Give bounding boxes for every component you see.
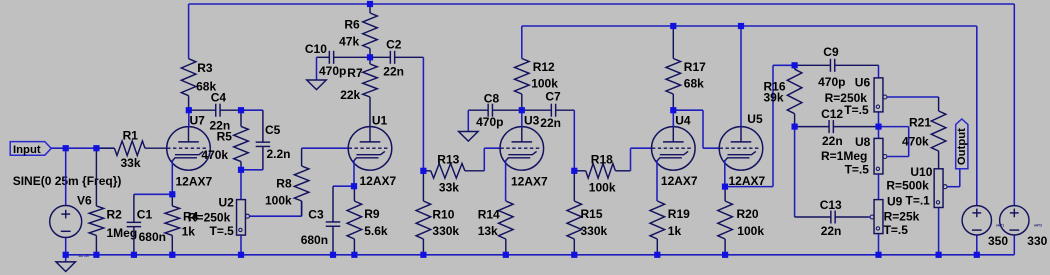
junction R10/R13 node — [420, 168, 426, 174]
label U6 value R=250k — [825, 91, 868, 105]
resistor R4 1k — [165, 194, 180, 255]
label U5 — [747, 112, 763, 126]
svg-text:R1: R1 — [123, 129, 139, 143]
svg-text:470p: 470p — [818, 75, 845, 89]
label C7 — [545, 89, 561, 103]
svg-text:U6: U6 — [855, 75, 871, 89]
junction rail U10 — [936, 252, 942, 258]
label C5 value 2.2n — [267, 147, 291, 161]
label R2 — [107, 208, 123, 222]
label R5 — [217, 130, 233, 144]
svg-text:350: 350 — [988, 234, 1008, 248]
resistor R9 5.6k — [347, 186, 362, 255]
label R4 value 1k — [182, 224, 196, 238]
triode U7 12AX7 — [167, 127, 211, 171]
label R7 value 22k — [340, 88, 360, 102]
svg-text:22n: 22n — [821, 224, 842, 238]
svg-text:100k: 100k — [531, 76, 558, 90]
label R14 — [478, 207, 500, 221]
potentiometer U2 250k — [237, 170, 302, 255]
svg-text:R10: R10 — [432, 207, 454, 221]
ground below C8 — [459, 110, 479, 141]
label C2 value 22n — [383, 65, 404, 79]
wire R18 up to U4 grid — [631, 148, 652, 171]
svg-text:470k: 470k — [201, 148, 228, 162]
svg-text:R9: R9 — [364, 207, 380, 221]
wire U10 wiper up to Output — [959, 169, 961, 187]
wire U4 cathode down — [656, 160, 658, 201]
svg-text:C10: C10 — [305, 42, 327, 56]
svg-text:C8: C8 — [484, 91, 500, 105]
resistor R8 100k — [294, 148, 309, 216]
wire C9 right down to U6 — [878, 65, 880, 78]
label 350 — [988, 234, 1008, 248]
svg-text:R2: R2 — [107, 208, 123, 222]
label R7 — [347, 66, 363, 80]
label U8 value R=1Meg — [821, 149, 867, 163]
label R17 — [684, 60, 706, 74]
label R9 — [364, 207, 380, 221]
svg-text:330k: 330k — [581, 224, 608, 238]
label C4 — [211, 90, 227, 104]
svg-text:470p: 470p — [319, 64, 346, 78]
input flag Input — [10, 142, 51, 156]
svg-text:330k: 330k — [432, 224, 459, 238]
svg-text:Output: Output — [956, 128, 968, 165]
svg-text:12AX7: 12AX7 — [360, 174, 397, 188]
junction rail R14 — [503, 252, 509, 258]
label R13 value 33k — [439, 180, 459, 194]
wire C5 top from node — [241, 109, 263, 111]
label R10 value 330k — [432, 224, 459, 238]
svg-text:33k: 33k — [439, 180, 459, 194]
capacitor C8 470p — [468, 104, 522, 117]
label R16 — [764, 80, 786, 94]
triode U4 12AX7 — [652, 127, 696, 171]
svg-text:1k: 1k — [668, 224, 682, 238]
potentiometer U8 1Meg — [874, 127, 909, 174]
svg-text:R12: R12 — [533, 60, 555, 74]
resistor R2 1Meg — [89, 148, 104, 255]
svg-text:R8: R8 — [276, 177, 292, 191]
junction R15/R18 node — [571, 168, 577, 174]
svg-text:470k: 470k — [902, 135, 929, 149]
wire U7 cathode down — [171, 160, 173, 194]
label R12 value 100k — [531, 76, 558, 90]
label R21 value 470k — [902, 135, 929, 149]
svg-text:1Meg: 1Meg — [107, 226, 138, 240]
svg-text:U10: U10 — [910, 165, 932, 179]
svg-text:R=1Meg: R=1Meg — [821, 149, 867, 163]
svg-text:22n: 22n — [383, 65, 404, 79]
wire U5 cathode to tone stack — [725, 65, 795, 186]
resistor R21 470k — [931, 97, 946, 169]
svg-text:C9: C9 — [823, 45, 839, 59]
potentiometer U10 500k — [934, 169, 960, 255]
svg-text:5.6k: 5.6k — [364, 224, 388, 238]
svg-text:R5: R5 — [217, 130, 233, 144]
label R6 — [344, 17, 360, 31]
svg-text:C12: C12 — [821, 107, 843, 121]
svg-text:1k: 1k — [182, 224, 196, 238]
wire C5 bottom to node — [241, 169, 263, 171]
svg-text:R6: R6 — [344, 17, 360, 31]
label R18 value 100k — [589, 181, 616, 195]
label R14 value 13k — [478, 224, 498, 238]
junction rail C1 — [131, 252, 137, 258]
junction V6 top node — [63, 145, 69, 151]
voltage source V330 supply — [1000, 206, 1029, 235]
resistor R3 68k — [181, 59, 196, 110]
label C1 — [137, 208, 153, 222]
label C13 — [820, 198, 842, 212]
label U10 value R=500k — [886, 179, 929, 193]
label U1 type 12AX7 — [360, 174, 397, 188]
svg-text:U1: U1 — [372, 113, 388, 127]
svg-text:R15: R15 — [581, 207, 603, 221]
wire C2 to R10/R13 node — [422, 57, 424, 171]
capacitor C9 470p — [795, 59, 879, 72]
label R8 — [276, 177, 292, 191]
triode U3 12AX7 — [500, 127, 544, 171]
svg-text:SINE(0 25m {Freq}): SINE(0 25m {Freq}) — [13, 174, 122, 188]
wire U5 plate — [740, 26, 742, 127]
label R12 — [533, 60, 555, 74]
svg-text:R=25k: R=25k — [884, 209, 920, 223]
ground at V6 node — [56, 255, 75, 272]
label U4 — [675, 113, 691, 127]
junction rail R4 — [169, 252, 175, 258]
tiny V350 name — [996, 224, 1004, 228]
svg-text:R=250k: R=250k — [188, 210, 231, 224]
svg-text:vHT2: vHT2 — [1034, 224, 1042, 228]
wire R16 bottom down to C13 — [794, 127, 796, 217]
svg-text:33k: 33k — [121, 156, 141, 170]
svg-text:13k: 13k — [478, 224, 498, 238]
label R9 value 5.6k — [364, 224, 388, 238]
label U4 type 12AX7 — [661, 174, 698, 188]
svg-text:22n: 22n — [540, 116, 561, 130]
label R4 — [183, 210, 199, 224]
resistor R5 470k — [234, 110, 249, 170]
label U3 type 12AX7 — [511, 175, 548, 189]
label R15 — [581, 207, 603, 221]
junction U3 plate node — [519, 107, 525, 113]
wire U1 cathode to C3 — [333, 185, 354, 187]
resistor R16 39k — [787, 65, 802, 126]
label R15 value 330k — [581, 224, 608, 238]
svg-text:T=.5: T=.5 — [845, 163, 870, 177]
junction rail2 / U5 plate — [738, 23, 744, 29]
label U6 value T=.5 — [844, 103, 869, 117]
capacitor C13 22n — [795, 211, 868, 224]
junction rail2 / R17 top — [670, 23, 676, 29]
svg-text:R17: R17 — [684, 60, 706, 74]
svg-text:C1: C1 — [137, 208, 153, 222]
junction R6/R7/C10/C2 node — [367, 54, 373, 60]
label C4 value 22n — [210, 119, 231, 133]
resistor R14 13k — [499, 201, 514, 255]
resistor R7 22k — [363, 57, 378, 127]
label R20 — [737, 207, 759, 221]
label C12 value 22n — [822, 134, 843, 148]
svg-text:Input: Input — [13, 144, 41, 156]
svg-text:U9: U9 — [887, 195, 903, 209]
wire U5 cathode down — [724, 160, 726, 187]
junction rail R2 — [93, 252, 99, 258]
junction rail C3 — [330, 252, 336, 258]
capacitor C5 2.2n — [256, 110, 271, 170]
label R19 — [668, 207, 690, 221]
junction rail1 / R6 top — [367, 1, 373, 7]
wire U7 cathode node to C1 — [134, 193, 172, 195]
label U10 value T=.1 — [906, 194, 931, 208]
label R5 value 470k — [201, 148, 228, 162]
capacitor C10 470p — [317, 51, 371, 64]
junction U5 cathode node — [722, 184, 728, 190]
label R13 — [437, 152, 459, 166]
capacitor C1 680n — [127, 194, 141, 255]
resistor R12 100k — [515, 59, 530, 111]
svg-text:C2: C2 — [386, 37, 402, 51]
triode U5 12AX7 — [719, 127, 763, 171]
svg-text:47k: 47k — [339, 35, 359, 49]
label R1 value 33k — [121, 156, 141, 170]
label C8 — [484, 91, 500, 105]
junction rail R19 — [654, 252, 660, 258]
label C7 value 22n — [540, 116, 561, 130]
label U7 — [190, 114, 206, 128]
svg-text:U7: U7 — [190, 114, 206, 128]
label U10 — [910, 165, 932, 179]
svg-text:680n: 680n — [139, 230, 166, 244]
svg-text:R7: R7 — [347, 66, 363, 80]
label R6 value 47k — [339, 35, 359, 49]
label C8 value 470p — [476, 115, 503, 129]
wire bottom ground rail — [66, 254, 1015, 256]
svg-text:22k: 22k — [340, 88, 360, 102]
svg-text:R14: R14 — [478, 207, 500, 221]
triode U1 12AX7 — [348, 127, 392, 171]
wire R8 top to U1 grid — [302, 147, 349, 149]
label R17 value 68k — [684, 76, 704, 90]
label C3 value 680n — [301, 233, 328, 247]
resistor R13 33k — [423, 164, 484, 179]
junction rail R20 — [722, 252, 728, 258]
wire U3 cathode down — [505, 160, 507, 201]
capacitor C12 22n — [795, 120, 879, 133]
svg-text:C5: C5 — [265, 123, 281, 137]
tiny V330 name — [1034, 224, 1042, 228]
svg-text:100k: 100k — [265, 193, 292, 207]
label C10 value 470p — [319, 64, 346, 78]
wire Input to R1 — [51, 147, 115, 149]
output flag Output — [956, 119, 968, 169]
wire rail2 left drop to R12 — [521, 26, 523, 59]
ground below C10 — [307, 57, 327, 89]
wire rail1 right drop to V330 — [1013, 4, 1015, 206]
svg-text:T=.5: T=.5 — [884, 223, 909, 237]
potentiometer U6 250k — [874, 78, 939, 127]
label 330 — [1027, 234, 1047, 248]
label U9 value R=25k — [884, 209, 920, 223]
svg-text:100k: 100k — [737, 224, 764, 238]
resistor R20 100k — [718, 187, 733, 255]
svg-text:T=.5: T=.5 — [844, 103, 869, 117]
wire U7 plate — [188, 110, 190, 127]
voltage source V350 supply — [962, 206, 991, 255]
wire rail right end up to V330 — [1013, 235, 1015, 255]
label U2 — [219, 195, 235, 209]
junction U4 plate node — [670, 107, 676, 113]
svg-text:U4: U4 — [675, 113, 691, 127]
wire U4 plate to U5 grid — [673, 110, 719, 148]
label U9 — [887, 195, 903, 209]
svg-text:R13: R13 — [437, 152, 459, 166]
tiny directive text — [79, 254, 89, 258]
svg-text:U5: U5 — [747, 112, 763, 126]
svg-text:R21: R21 — [909, 116, 931, 130]
capacitor C4 22n — [189, 104, 241, 117]
capacitor C2 22n — [370, 51, 423, 64]
svg-text:470p: 470p — [476, 115, 503, 129]
svg-text:12AX7: 12AX7 — [661, 174, 698, 188]
wire R13 up to U3 grid — [484, 148, 500, 171]
svg-text:100k: 100k — [589, 181, 616, 195]
capacitor C7 22n — [522, 104, 575, 117]
label Output text — [956, 128, 968, 165]
wire U3 plate — [521, 110, 523, 127]
label SINE source text — [13, 174, 122, 188]
capacitor C3 680n — [326, 186, 341, 255]
label R16 value 39k — [764, 91, 784, 105]
label R3 value 68k — [196, 79, 216, 93]
label C5 — [265, 123, 281, 137]
label R21 — [909, 116, 931, 130]
svg-text:V6: V6 — [77, 193, 92, 207]
wire second supply rail — [522, 25, 977, 27]
resistor R17 68k — [666, 26, 681, 110]
resistor R18 100k — [574, 164, 630, 179]
label U8 value T=.5 — [845, 163, 870, 177]
label C12 — [821, 107, 843, 121]
label R10 — [432, 207, 454, 221]
junction R5/C5/U2 node — [238, 167, 244, 173]
wire top supply rail — [189, 3, 1015, 5]
junction R16 bottom node — [792, 124, 798, 130]
junction U1 cathode node — [351, 183, 357, 189]
label U6 — [855, 75, 871, 89]
svg-text:U2: U2 — [219, 195, 235, 209]
svg-text:C3: C3 — [308, 208, 324, 222]
wire C7 down to R15/R18 node — [573, 110, 575, 171]
label U3 — [524, 113, 540, 127]
svg-text:330: 330 — [1027, 234, 1047, 248]
wire U8 top tie — [879, 127, 909, 157]
svg-text:68k: 68k — [684, 76, 704, 90]
svg-text:R19: R19 — [668, 207, 690, 221]
junction rail U2 — [238, 252, 244, 258]
voltage source V6 — [50, 148, 82, 255]
junction R16/C9 top node — [792, 62, 798, 68]
label R18 — [591, 152, 613, 166]
junction rail V6 — [63, 252, 69, 258]
label C9 value 470p — [818, 75, 845, 89]
junction R2 top node — [93, 145, 99, 151]
junction rail R15 — [571, 252, 577, 258]
label R2 value 1Meg — [107, 226, 138, 240]
label R20 value 100k — [737, 224, 764, 238]
wire U1 cathode down — [353, 160, 355, 186]
svg-text:39k: 39k — [764, 91, 784, 105]
wire U4 plate — [672, 110, 674, 127]
junction rail U9 — [875, 252, 881, 258]
svg-text:U3: U3 — [524, 113, 540, 127]
label U7 type 12AX7 — [176, 175, 213, 189]
label C3 — [308, 208, 324, 222]
svg-text:12AX7: 12AX7 — [176, 175, 213, 189]
wire U2 wiper up to R8 — [301, 201, 303, 216]
svg-text:680n: 680n — [301, 233, 328, 247]
label U2 value T=.5 — [210, 224, 235, 238]
svg-text:R3: R3 — [197, 61, 213, 75]
svg-text:22n: 22n — [822, 134, 843, 148]
svg-text:R=500k: R=500k — [886, 179, 929, 193]
resistor R10 330k — [416, 171, 431, 255]
label R8 value 100k — [265, 193, 292, 207]
junction C4/R5/C5 node — [238, 107, 244, 113]
svg-text:C4: C4 — [211, 90, 227, 104]
resistor R1 33k — [96, 141, 166, 156]
label V6 — [77, 193, 92, 207]
resistor R6 47k — [363, 4, 378, 57]
svg-text:C13: C13 — [820, 198, 842, 212]
junction rail R10 — [420, 252, 426, 258]
resistor R15 330k — [567, 171, 582, 255]
junction U7 plate node — [186, 107, 192, 113]
svg-text:T=.5: T=.5 — [210, 224, 235, 238]
svg-text:12AX7: 12AX7 — [511, 175, 548, 189]
label C13 value 22n — [821, 224, 842, 238]
svg-text:R20: R20 — [737, 207, 759, 221]
junction C12/U6/U8 node — [875, 124, 881, 130]
wire rail2 right drop to V350 — [976, 26, 978, 206]
resistor R19 1k — [650, 201, 665, 255]
potentiometer U9 25k — [868, 174, 883, 255]
label R1 — [123, 129, 139, 143]
label C10 — [305, 42, 327, 56]
svg-text:R18: R18 — [591, 152, 613, 166]
label U5 type 12AX7 — [729, 174, 766, 188]
label Input text — [13, 144, 41, 156]
wire rail1 left drop to R3 — [188, 4, 190, 59]
junction U7 cathode node — [169, 191, 175, 197]
svg-text:T=.1: T=.1 — [906, 194, 931, 208]
label U2 value R=250k — [188, 210, 231, 224]
label U8 — [855, 135, 871, 149]
label C9 — [823, 45, 839, 59]
junction rail V350 — [974, 252, 980, 258]
svg-text:C7: C7 — [545, 89, 561, 103]
svg-text:2.2n: 2.2n — [267, 147, 291, 161]
label C2 — [386, 37, 402, 51]
label R19 value 1k — [668, 224, 682, 238]
label R3 — [197, 61, 213, 75]
label U9 value T=.5 — [884, 223, 909, 237]
junction rail R9 — [351, 252, 357, 258]
label C1 value 680n — [139, 230, 166, 244]
svg-text:U8: U8 — [855, 135, 871, 149]
